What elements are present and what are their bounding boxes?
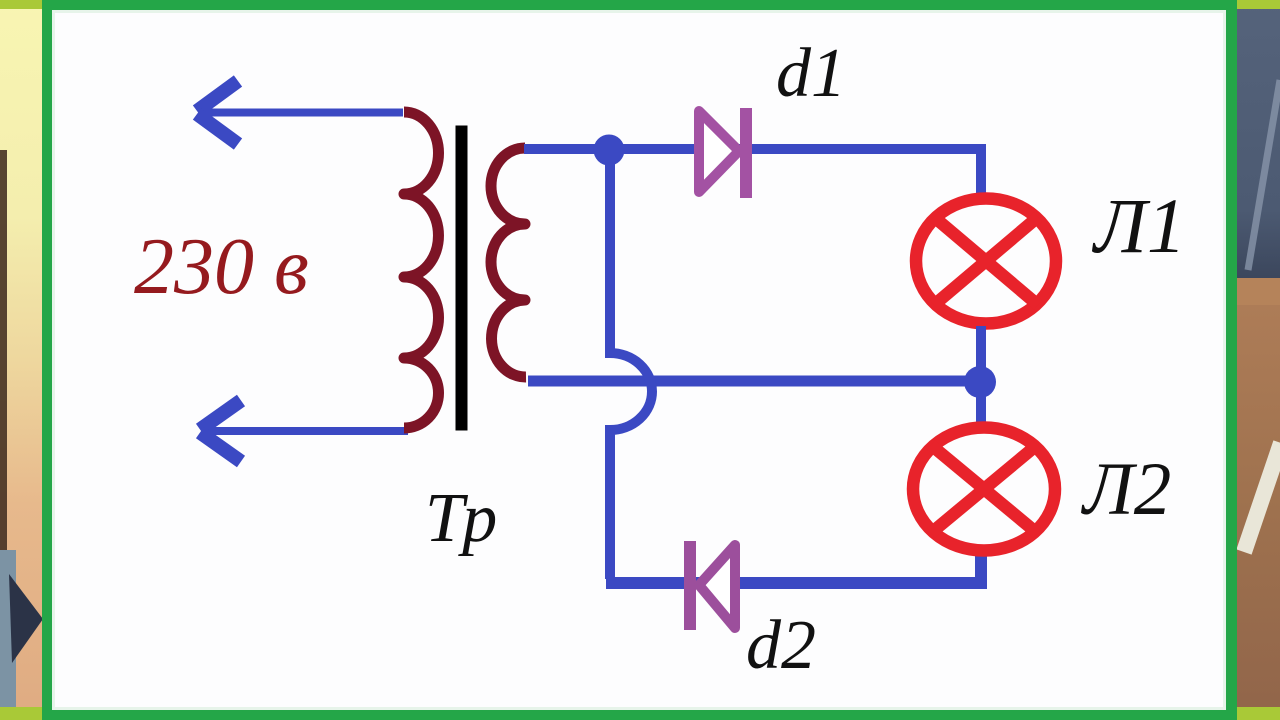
svg-text:230 в: 230 в <box>134 223 309 311</box>
svg-text:Л2: Л2 <box>1081 448 1171 531</box>
wire: secondary bottom (center tap) to node B <box>528 376 980 387</box>
wire: node A down, hop over center wire, to d2 <box>610 150 652 579</box>
lamp Л2 (circle with X) <box>913 428 1055 551</box>
wire: lamp Л1 to node B <box>976 326 986 382</box>
background right strip <box>1237 0 1280 720</box>
wire: primary top lead <box>199 109 403 117</box>
arrow: mains top (pointing left) <box>197 81 238 144</box>
node A (junction dot) <box>594 135 625 166</box>
arrow: mains bottom (pointing left) <box>200 401 241 462</box>
transformer core <box>456 126 468 431</box>
transformer Tp secondary winding <box>491 148 526 377</box>
wire: primary bottom lead <box>202 427 408 435</box>
background left wall strip <box>0 0 43 720</box>
lamp Л1 (circle with X) <box>916 199 1056 324</box>
transformer Tp primary winding <box>404 112 439 428</box>
svg-text:Л1: Л1 <box>1091 182 1186 269</box>
svg-text:Тр: Тр <box>425 480 497 557</box>
svg-text:d1: d1 <box>776 35 846 112</box>
wire: node A to lamp Л1 (runs under diode d1) <box>609 149 981 198</box>
wire: secondary top to node A <box>524 144 612 154</box>
node B (junction dot) <box>964 366 996 398</box>
svg-text:d2: d2 <box>746 607 816 684</box>
diode d1 (anode left, cathode bar right) <box>699 108 752 198</box>
wire: d2 bottom run to lamp Л2 (runs under diode d2) <box>606 549 981 583</box>
diode d2 (cathode bar left, anode right) <box>684 541 735 630</box>
wire: node B to lamp Л2 top <box>976 382 986 424</box>
